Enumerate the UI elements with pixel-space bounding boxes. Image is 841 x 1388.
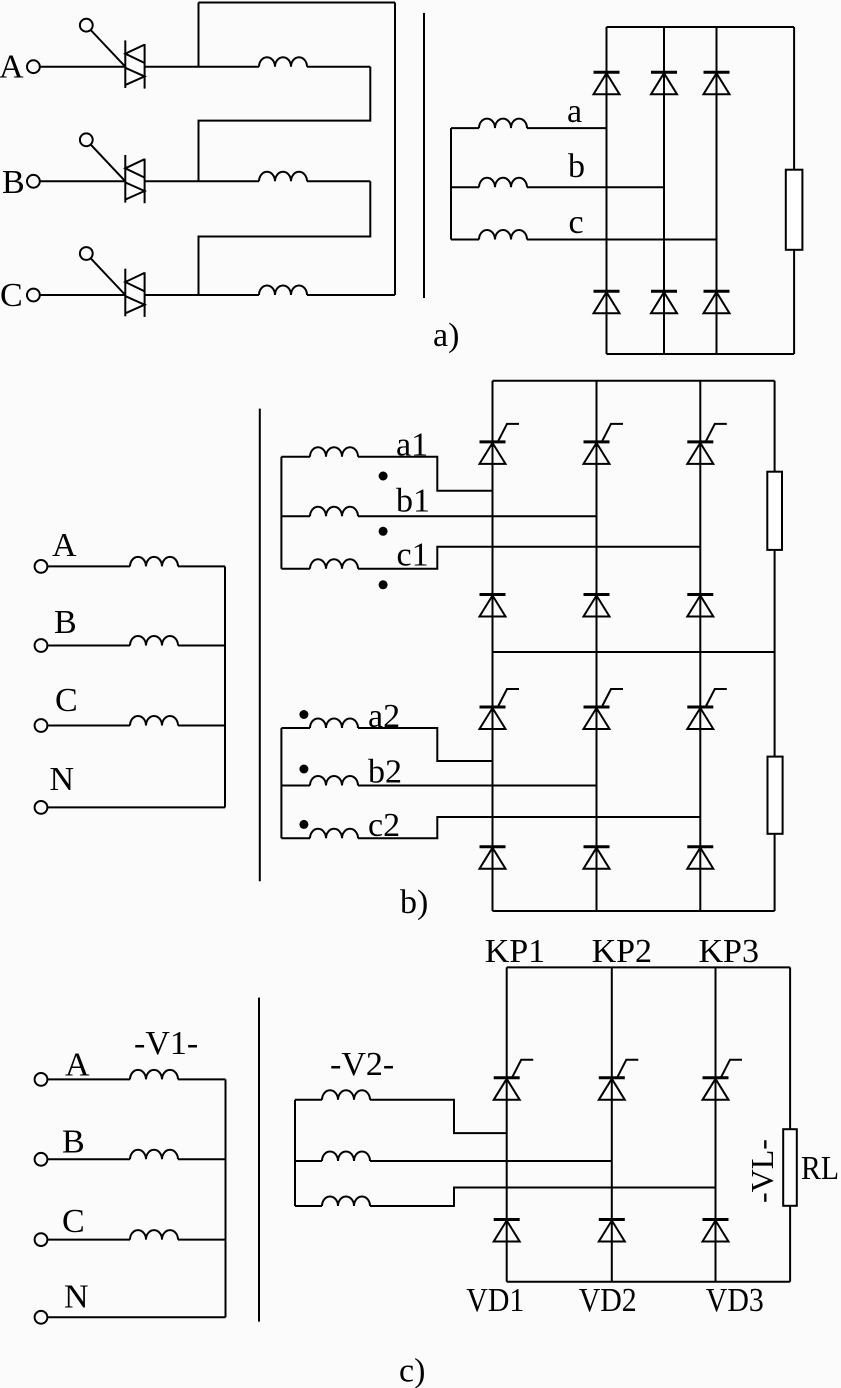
wire bridge leg 1 c) xyxy=(506,967,508,1281)
thyristor lower 2 b) xyxy=(584,689,624,729)
wire secondary a to leg1 c) xyxy=(370,1100,507,1133)
triac VSC xyxy=(125,269,144,317)
wire star bus b) xyxy=(224,566,226,807)
wire secondary top in c) xyxy=(295,1099,322,1101)
gate terminal B xyxy=(80,133,93,146)
polarity dot a2 xyxy=(299,710,308,719)
primary winding A b) xyxy=(130,557,178,567)
svg-text:C: C xyxy=(55,682,78,719)
wire winding A to phase B xyxy=(199,67,371,182)
diode upper-bridge 3 b) xyxy=(687,595,713,617)
wire bridge bottom bus a) xyxy=(607,353,795,355)
wire secondary star bus a) xyxy=(450,128,452,239)
wire star bus secondary 1 b) xyxy=(280,457,282,569)
load resistor 1 b) xyxy=(767,472,782,550)
wire delta right xyxy=(394,3,396,296)
wire c1 in xyxy=(281,568,310,570)
secondary winding a2 xyxy=(310,719,358,729)
terminal C c) xyxy=(35,1233,48,1246)
wire winding C out xyxy=(307,294,395,296)
wire winding B to star b) xyxy=(178,645,225,647)
wire winding C to star c) xyxy=(178,1239,226,1241)
wire c2 in xyxy=(281,837,310,839)
wire node a2 to leg1 xyxy=(358,728,493,761)
thyristor upper 2 b) xyxy=(584,424,624,464)
svg-text:b1: b1 xyxy=(396,483,430,520)
gate terminal C xyxy=(80,247,93,260)
terminal A xyxy=(27,60,40,73)
primary winding C b) xyxy=(130,716,178,726)
diode lower-bridge 1 b) xyxy=(480,847,506,869)
triac VSB xyxy=(125,155,144,203)
terminal A b) xyxy=(35,560,48,573)
wire winding A to star c) xyxy=(178,1078,226,1080)
wire phase C b) xyxy=(47,725,130,727)
wire b1 in xyxy=(281,515,310,517)
wire node a1 to leg1 xyxy=(358,457,493,491)
diode lower 2 a) xyxy=(651,291,677,313)
wire b2 in xyxy=(281,785,310,787)
wire load bottom c) xyxy=(789,1206,791,1282)
wire triac B to winding xyxy=(145,180,259,182)
diode upper 3 a) xyxy=(704,72,730,94)
wire triac A to winding xyxy=(145,66,259,68)
wire neutral N b) xyxy=(47,806,225,808)
diode upper-bridge 1 b) xyxy=(480,595,506,617)
wire neutral N c) xyxy=(47,1316,225,1318)
wire winding B to star c) xyxy=(178,1158,226,1160)
wire phase C c) xyxy=(47,1239,130,1241)
thyristor KP3 xyxy=(703,1060,743,1100)
wire a2 in xyxy=(281,727,310,729)
diode lower-bridge 3 b) xyxy=(687,847,713,869)
thyristor KP2 xyxy=(599,1060,639,1100)
wire secondary bottom in c) xyxy=(295,1205,322,1207)
transformer core c) xyxy=(258,998,260,1322)
wire bridge leg 1 a) xyxy=(606,27,608,354)
terminal N c) xyxy=(35,1311,48,1324)
wire phase A c) xyxy=(47,1078,130,1080)
thyristor upper 1 b) xyxy=(480,424,520,464)
diode VD2 xyxy=(599,1220,625,1242)
secondary winding c2 xyxy=(310,829,358,839)
wire winding B to phase C xyxy=(199,181,371,295)
wire node c2 to leg3 xyxy=(358,817,700,838)
secondary winding a xyxy=(479,119,527,129)
svg-text:-VL-: -VL- xyxy=(744,1139,780,1203)
wire bridge leg 1 b) xyxy=(492,381,494,911)
polarity dot a1 xyxy=(379,472,388,481)
secondary winding a1 xyxy=(310,447,358,457)
wire bridge leg 3 c) xyxy=(715,967,717,1281)
svg-text:C: C xyxy=(62,1203,85,1240)
svg-text:B: B xyxy=(2,164,25,201)
load resistor a) xyxy=(786,170,803,250)
polarity dot c2 xyxy=(299,820,308,829)
terminal B xyxy=(27,175,40,188)
wire phase B b) xyxy=(47,645,130,647)
transformer core b) xyxy=(259,409,261,882)
polarity dot b1 xyxy=(379,527,388,536)
wire winding A out xyxy=(307,66,370,68)
primary winding C c) xyxy=(130,1230,178,1240)
wire winding C to star b) xyxy=(178,725,225,727)
load resistor 2 b) xyxy=(768,757,783,834)
primary winding A xyxy=(259,57,307,67)
wire load 1 bottom b) xyxy=(774,550,776,652)
thyristor lower 3 b) xyxy=(687,689,727,729)
triac VSA xyxy=(125,40,144,88)
svg-text:N: N xyxy=(50,761,75,798)
svg-text:VD3: VD3 xyxy=(706,1282,764,1319)
diode upper-bridge 2 b) xyxy=(584,595,610,617)
primary winding B b) xyxy=(130,636,178,645)
diode lower 3 a) xyxy=(704,291,730,313)
wire winding B out xyxy=(307,180,370,182)
svg-text:B: B xyxy=(62,1124,85,1161)
gate wire B xyxy=(91,145,126,182)
secondary winding b2 xyxy=(310,776,358,786)
wire secondary b to leg2 c) xyxy=(370,1160,612,1162)
wire delta left upper xyxy=(198,3,200,67)
wire bridge leg 2 b) xyxy=(596,381,598,911)
svg-text:b): b) xyxy=(400,884,428,921)
svg-text:A: A xyxy=(52,527,77,564)
polarity dot b2 xyxy=(299,765,308,774)
wire winding A to star b) xyxy=(178,565,225,567)
svg-text:c): c) xyxy=(399,1353,425,1388)
diode VD3 xyxy=(703,1220,729,1242)
wire phase A b) xyxy=(47,565,130,567)
terminal B c) xyxy=(35,1153,48,1166)
svg-text:KP1: KP1 xyxy=(485,933,545,970)
wire triac C to winding xyxy=(145,294,259,296)
svg-text:A: A xyxy=(0,49,24,86)
svg-text:a): a) xyxy=(433,317,459,354)
wire a1 in xyxy=(281,456,310,458)
primary winding C xyxy=(259,286,307,296)
svg-text:RL: RL xyxy=(801,1150,839,1187)
terminal C b) xyxy=(35,719,48,732)
wire bridge leg 2 a) xyxy=(663,27,665,354)
svg-text:a1: a1 xyxy=(396,427,428,464)
svg-text:KP2: KP2 xyxy=(592,933,652,970)
terminal C xyxy=(27,289,40,302)
wire node b2 to leg2 xyxy=(358,785,597,787)
wire phase A to triac xyxy=(40,66,126,68)
gate wire A xyxy=(91,30,126,67)
wire secondary b xyxy=(451,186,479,188)
wire bridge leg 3 a) xyxy=(716,27,718,354)
secondary winding a c) xyxy=(322,1090,370,1100)
wire load 2 bottom b) xyxy=(774,834,776,911)
svg-text:a2: a2 xyxy=(368,698,400,735)
primary winding B xyxy=(259,172,307,182)
svg-text:KP3: KP3 xyxy=(699,933,759,970)
secondary winding b xyxy=(479,178,527,188)
wire bridge bottom bus c) xyxy=(507,1281,790,1283)
wire load bottom a) xyxy=(793,250,795,354)
wire bridge leg 3 b) xyxy=(699,381,701,911)
wire node c1 to leg3 xyxy=(358,547,700,569)
polarity dot c1 xyxy=(379,580,388,589)
gate wire C xyxy=(91,258,126,295)
wire bridge bottom bus b) xyxy=(493,910,775,912)
wire phase B c) xyxy=(47,1158,130,1160)
wire mid bus b) xyxy=(493,651,775,653)
wire bridge leg 2 c) xyxy=(611,967,613,1281)
wire node c xyxy=(527,239,717,241)
primary winding B c) xyxy=(130,1150,178,1160)
secondary winding b c) xyxy=(322,1152,370,1162)
wire bridge top bus b) xyxy=(493,380,775,382)
wire secondary mid in c) xyxy=(295,1160,322,1162)
svg-text:a: a xyxy=(567,93,582,130)
diode VD1 xyxy=(494,1220,520,1242)
svg-text:VD1: VD1 xyxy=(466,1282,524,1319)
thyristor lower 1 b) xyxy=(480,689,520,729)
terminal A c) xyxy=(35,1073,48,1086)
primary winding A c) xyxy=(130,1070,178,1080)
svg-text:C: C xyxy=(0,277,23,314)
svg-text:c: c xyxy=(569,204,584,241)
wire phase C to triac xyxy=(40,294,126,296)
thyristor KP1 xyxy=(494,1060,534,1100)
thyristor upper 3 b) xyxy=(687,424,727,464)
diode lower-bridge 2 b) xyxy=(584,847,610,869)
svg-text:-V2-: -V2- xyxy=(330,1046,394,1083)
svg-text:VD2: VD2 xyxy=(579,1282,637,1319)
wire secondary a xyxy=(451,127,479,129)
svg-text:A: A xyxy=(65,1046,90,1083)
wire phase B to triac xyxy=(40,180,126,182)
wire star bus secondary 2 b) xyxy=(280,728,282,838)
load resistor RL xyxy=(783,1129,797,1206)
svg-text:B: B xyxy=(54,604,77,641)
wire secondary c xyxy=(451,239,479,241)
wire star bus c) xyxy=(225,1079,227,1317)
svg-text:N: N xyxy=(64,1279,89,1316)
secondary winding c1 xyxy=(310,559,358,569)
terminal B b) xyxy=(35,639,48,652)
svg-text:b: b xyxy=(568,148,585,185)
wire star bus secondary c) xyxy=(294,1100,296,1206)
svg-text:-V1-: -V1- xyxy=(134,1025,198,1062)
wire load top c) xyxy=(789,967,791,1129)
transformer core a) xyxy=(423,13,425,298)
secondary winding c c) xyxy=(322,1197,370,1207)
wire load 1 top b) xyxy=(774,381,776,472)
terminal N b) xyxy=(35,801,48,814)
wire node b xyxy=(527,186,664,188)
wire bridge top bus a) xyxy=(607,26,795,28)
wire secondary c to leg3 c) xyxy=(370,1188,716,1207)
wire bridge top bus c) xyxy=(507,966,790,968)
wire node b1 to leg2 xyxy=(358,515,597,517)
wire load 2 top b) xyxy=(774,652,776,757)
wire node a xyxy=(527,127,607,129)
gate terminal A xyxy=(80,19,93,32)
diode lower 1 a) xyxy=(594,291,620,313)
wire load top a) xyxy=(793,27,795,170)
secondary winding c xyxy=(479,230,527,239)
wire delta top xyxy=(199,2,396,4)
diode upper 1 a) xyxy=(594,72,620,94)
secondary winding b1 xyxy=(310,507,358,517)
diode upper 2 a) xyxy=(651,72,677,94)
